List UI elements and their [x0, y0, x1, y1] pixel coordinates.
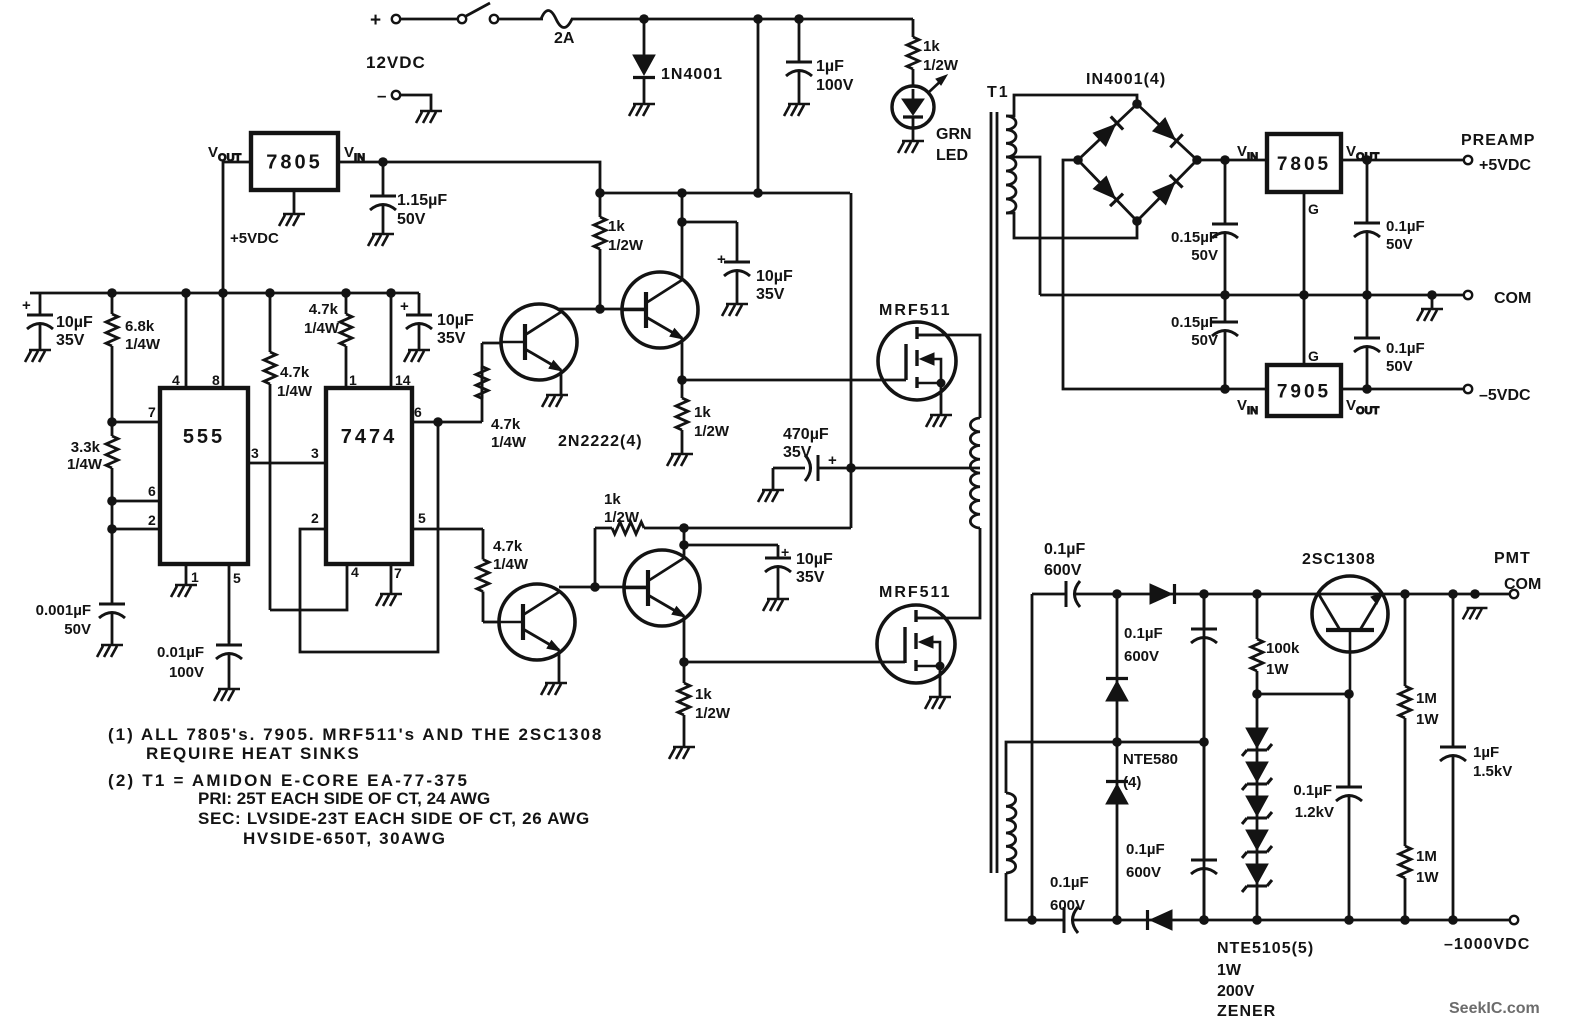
svg-text:1W: 1W [1416, 869, 1439, 886]
svg-text:7: 7 [148, 404, 156, 420]
svg-text:SEC: LVSIDE-23T EACH SIDE OF C: SEC: LVSIDE-23T EACH SIDE OF CT, 26 AWG [198, 809, 590, 828]
svg-text:35V: 35V [783, 444, 812, 461]
svg-text:7805: 7805 [1277, 154, 1331, 175]
svg-text:2: 2 [148, 512, 156, 528]
svg-text:35V: 35V [756, 286, 785, 303]
svg-text:8: 8 [212, 372, 220, 388]
svg-text:COM: COM [1494, 290, 1531, 307]
svg-text:0.1µF: 0.1µF [1050, 874, 1089, 891]
svg-text:6: 6 [148, 483, 156, 499]
svg-text:0.1µF: 0.1µF [1386, 218, 1425, 235]
svg-text:MRF511: MRF511 [879, 302, 951, 319]
svg-text:555: 555 [183, 426, 225, 448]
svg-text:GRN: GRN [936, 126, 972, 143]
svg-text:+5VDC: +5VDC [1479, 157, 1531, 174]
svg-text:NTE5105(5): NTE5105(5) [1217, 940, 1314, 957]
svg-text:470µF: 470µF [783, 426, 829, 443]
svg-text:1/2W: 1/2W [608, 237, 644, 254]
svg-text:600V: 600V [1126, 864, 1161, 881]
svg-text:0.1µF: 0.1µF [1126, 841, 1165, 858]
svg-text:+: + [717, 251, 726, 268]
svg-text:1/4W: 1/4W [277, 383, 313, 400]
svg-text:(4): (4) [1123, 774, 1141, 791]
svg-text:1µF: 1µF [1473, 744, 1499, 761]
svg-text:MRF511: MRF511 [879, 584, 951, 601]
svg-text:+: + [781, 544, 789, 560]
svg-text:50V: 50V [1386, 358, 1413, 375]
svg-text:7474: 7474 [341, 426, 398, 448]
svg-text:50V: 50V [397, 211, 426, 228]
svg-text:1/4W: 1/4W [125, 336, 161, 353]
svg-text:0.1µF: 0.1µF [1293, 782, 1332, 799]
svg-text:HVSIDE-650T, 30AWG: HVSIDE-650T, 30AWG [243, 829, 447, 848]
svg-text:1/2W: 1/2W [604, 509, 640, 526]
svg-text:ZENER: ZENER [1217, 1003, 1276, 1020]
svg-text:50V: 50V [1191, 247, 1218, 264]
svg-text:G: G [1308, 348, 1319, 364]
svg-text:3: 3 [311, 445, 319, 461]
svg-text:+: + [22, 297, 31, 314]
svg-text:35V: 35V [437, 330, 466, 347]
svg-text:SeekIC.com: SeekIC.com [1449, 1000, 1540, 1017]
svg-text:4: 4 [172, 372, 180, 388]
svg-text:IN4001(4): IN4001(4) [1086, 71, 1166, 88]
svg-text:1W: 1W [1416, 711, 1439, 728]
svg-text:35V: 35V [796, 569, 825, 586]
svg-text:10µF: 10µF [796, 551, 833, 568]
svg-text:35V: 35V [56, 332, 85, 349]
svg-text:1W: 1W [1266, 661, 1289, 678]
svg-text:–5VDC: –5VDC [1479, 387, 1531, 404]
svg-text:0.15µF: 0.15µF [1171, 314, 1218, 331]
svg-text:6: 6 [414, 404, 422, 420]
svg-text:2SC1308: 2SC1308 [1302, 551, 1376, 568]
svg-text:4: 4 [351, 564, 359, 580]
svg-text:1.2kV: 1.2kV [1295, 804, 1334, 821]
svg-text:0.1µF: 0.1µF [1124, 625, 1163, 642]
svg-text:14: 14 [395, 372, 411, 388]
svg-text:1: 1 [349, 372, 357, 388]
svg-text:T1: T1 [987, 84, 1010, 101]
svg-text:2N2222(4): 2N2222(4) [558, 433, 643, 450]
svg-text:4.7k: 4.7k [491, 416, 521, 433]
svg-text:1W: 1W [1217, 962, 1242, 979]
svg-text:1µF: 1µF [816, 58, 844, 75]
svg-text:7905: 7905 [1277, 382, 1331, 403]
svg-text:6.8k: 6.8k [125, 318, 155, 335]
svg-text:1N4001: 1N4001 [661, 66, 723, 83]
svg-text:1/2W: 1/2W [923, 57, 959, 74]
svg-text:600V: 600V [1050, 897, 1085, 914]
svg-text:1k: 1k [695, 686, 712, 703]
svg-text:3.3k: 3.3k [71, 439, 101, 456]
svg-text:50V: 50V [1191, 332, 1218, 349]
svg-text:(1) ALL 7805's. 7905. MRF511's: (1) ALL 7805's. 7905. MRF511's AND THE 2… [108, 725, 603, 744]
svg-text:LED: LED [936, 147, 968, 164]
svg-text:+5VDC: +5VDC [230, 230, 279, 247]
svg-text:1k: 1k [923, 38, 940, 55]
svg-text:0.1µF: 0.1µF [1386, 340, 1425, 357]
svg-text:10µF: 10µF [56, 314, 93, 331]
svg-text:10µF: 10µF [437, 312, 474, 329]
svg-text:1/2W: 1/2W [695, 705, 731, 722]
svg-text:NTE580: NTE580 [1123, 751, 1178, 768]
svg-text:–: – [377, 86, 386, 105]
svg-text:4.7k: 4.7k [280, 364, 310, 381]
svg-text:4.7k: 4.7k [493, 538, 523, 555]
svg-text:12VDC: 12VDC [366, 53, 426, 72]
svg-text:2A: 2A [554, 30, 575, 47]
svg-text:1/4W: 1/4W [493, 556, 529, 573]
svg-text:1/2W: 1/2W [694, 423, 730, 440]
svg-text:REQUIRE HEAT SINKS: REQUIRE HEAT SINKS [146, 744, 360, 763]
svg-text:10µF: 10µF [756, 268, 793, 285]
svg-text:1.5kV: 1.5kV [1473, 763, 1512, 780]
svg-text:1: 1 [191, 569, 199, 585]
svg-text:COM: COM [1504, 576, 1541, 593]
svg-text:100V: 100V [816, 77, 854, 94]
svg-text:3: 3 [251, 445, 259, 461]
svg-text:PMT: PMT [1494, 550, 1531, 567]
svg-text:+: + [828, 452, 837, 469]
svg-text:100k: 100k [1266, 640, 1300, 657]
svg-text:1/4W: 1/4W [304, 320, 340, 337]
svg-text:100V: 100V [169, 664, 204, 681]
svg-text:5: 5 [233, 570, 241, 586]
svg-text:+: + [400, 298, 409, 315]
svg-text:1M: 1M [1416, 690, 1437, 707]
svg-text:1k: 1k [608, 218, 625, 235]
svg-text:0.001µF: 0.001µF [36, 602, 91, 619]
svg-text:50V: 50V [64, 621, 91, 638]
svg-text:+: + [370, 10, 381, 31]
svg-text:0.01µF: 0.01µF [157, 644, 204, 661]
svg-text:2: 2 [311, 510, 319, 526]
svg-text:0.1µF: 0.1µF [1044, 541, 1085, 558]
svg-text:7805: 7805 [266, 152, 323, 174]
svg-text:600V: 600V [1044, 562, 1082, 579]
svg-text:(2) T1 = AMIDON E-CORE EA-77-3: (2) T1 = AMIDON E-CORE EA-77-375 [108, 771, 469, 790]
svg-text:1M: 1M [1416, 848, 1437, 865]
svg-text:PRI: 25T EACH SIDE OF CT, 24 A: PRI: 25T EACH SIDE OF CT, 24 AWG [198, 789, 490, 808]
svg-text:1k: 1k [604, 491, 621, 508]
svg-text:1.15µF: 1.15µF [397, 192, 447, 209]
svg-text:G: G [1308, 201, 1319, 217]
svg-text:4.7k: 4.7k [309, 301, 339, 318]
svg-text:5: 5 [418, 510, 426, 526]
svg-text:0.15µF: 0.15µF [1171, 229, 1218, 246]
svg-text:50V: 50V [1386, 236, 1413, 253]
svg-text:1/4W: 1/4W [67, 456, 103, 473]
svg-text:600V: 600V [1124, 648, 1159, 665]
svg-text:1k: 1k [694, 404, 711, 421]
svg-text:PREAMP: PREAMP [1461, 132, 1535, 149]
svg-text:1/4W: 1/4W [491, 434, 527, 451]
svg-text:–1000VDC: –1000VDC [1444, 936, 1530, 953]
svg-text:200V: 200V [1217, 983, 1255, 1000]
svg-text:7: 7 [394, 565, 402, 581]
